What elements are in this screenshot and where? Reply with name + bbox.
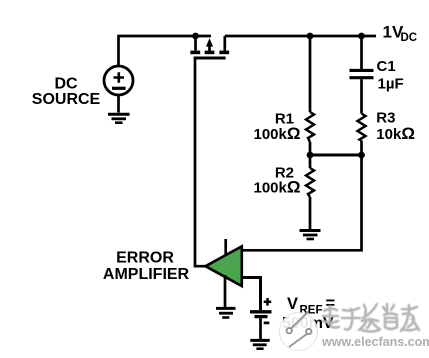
wire gate drive: amp output up to MOSFET gate: [195, 58, 207, 266]
resistor R1: [306, 112, 314, 142]
svg-text:DC: DC: [401, 32, 418, 44]
wire R3 bottom lead: [360, 141, 363, 156]
ground (DC source): [108, 114, 130, 123]
wire battery bottom lead: [259, 317, 262, 340]
svg-text:1µF: 1µF: [378, 76, 404, 93]
wire op-amp supply stub top: [224, 239, 227, 256]
wire top-right: MOSFET drain to 1VDC node: [225, 35, 376, 38]
resistor R3: [358, 114, 366, 141]
ground (R2): [300, 231, 321, 240]
node junction dot R1/R2: [307, 152, 314, 159]
label R1 100kohm: [253, 111, 300, 143]
svg-text:ERROR: ERROR: [116, 250, 174, 267]
svg-text:SOURCE: SOURCE: [32, 91, 101, 108]
label VREF =: [287, 295, 335, 317]
node junction dot R3 bottom: [358, 152, 365, 159]
wire C1 top lead: [360, 36, 363, 69]
watermark edit circle: [280, 312, 318, 351]
label ERROR AMPLIFIER: [103, 250, 190, 283]
watermark chinese glyphs: [323, 304, 419, 332]
capacitor C1: [350, 70, 374, 77]
label C1 1uF: [377, 58, 404, 93]
transistor Q1 body arrow: [206, 38, 213, 46]
DC source V1: [104, 66, 133, 113]
battery VREF minus mark: [264, 322, 270, 325]
wire R2 top lead: [309, 155, 312, 168]
watermark www.elecfans.com: [321, 335, 429, 350]
svg-text:V: V: [287, 295, 298, 313]
node junction dot at MOSFET source: [192, 33, 199, 40]
wire feedback tap junction: [310, 154, 362, 157]
svg-text:R3: R3: [376, 109, 395, 126]
transistor Q1 (P-MOSFET pass device): [190, 36, 229, 58]
op-amp U1 error amplifier triangle: [206, 246, 242, 286]
svg-text:100kΩ: 100kΩ: [253, 177, 300, 196]
node junction dot at R1 top: [307, 33, 314, 40]
label R3 10kohm: [376, 109, 415, 143]
wire C1 bottom to R3 top: [360, 79, 363, 113]
svg-text:AMPLIFIER: AMPLIFIER: [103, 266, 190, 283]
label 1VDC: [383, 23, 418, 45]
battery VREF plus mark: [264, 298, 272, 306]
svg-text:www.elecfans.com: www.elecfans.com: [321, 335, 429, 349]
wire feedback to error amp inverting input: [242, 155, 362, 250]
wire op-amp ground stub bottom: [224, 275, 227, 308]
wire non-inverting input to VREF battery: [242, 278, 261, 311]
label R2 100kohm: [253, 164, 300, 196]
node junction dot at C1 top: [358, 33, 365, 40]
wire top-left: DC source to MOSFET source/body: [119, 36, 212, 66]
svg-text:DC: DC: [54, 76, 78, 93]
wire R2 bottom lead: [309, 197, 312, 229]
wire R1 bottom lead: [309, 142, 312, 155]
svg-text:10kΩ: 10kΩ: [376, 124, 415, 143]
label DC SOURCE: [32, 76, 101, 109]
ground (op-amp): [216, 308, 236, 317]
resistor R2: [306, 168, 314, 197]
battery VREF: [250, 312, 272, 317]
ground (battery): [250, 340, 269, 348]
svg-text:C1: C1: [377, 58, 396, 75]
wire R1 top lead: [309, 36, 312, 112]
svg-text:100kΩ: 100kΩ: [253, 124, 300, 143]
